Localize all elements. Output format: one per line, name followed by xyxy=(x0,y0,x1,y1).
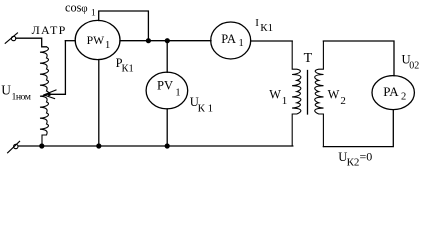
svg-text:2: 2 xyxy=(401,91,406,102)
svg-text:ЛАТР: ЛАТР xyxy=(32,23,67,37)
svg-text:PA: PA xyxy=(383,84,399,99)
svg-text:К2: К2 xyxy=(347,157,360,169)
svg-text:1ном: 1ном xyxy=(12,91,31,102)
svg-text:=0: =0 xyxy=(360,149,373,163)
svg-text:02: 02 xyxy=(409,61,419,72)
svg-text:1: 1 xyxy=(282,95,288,107)
svg-text:T: T xyxy=(304,51,313,66)
svg-text:I: I xyxy=(255,17,259,29)
svg-text:1: 1 xyxy=(239,38,244,49)
svg-text:К1: К1 xyxy=(260,22,273,34)
svg-text:cos: cos xyxy=(65,0,82,14)
svg-text:W: W xyxy=(328,88,340,102)
svg-text:U: U xyxy=(1,83,11,98)
svg-text:К1: К1 xyxy=(122,64,134,75)
svg-text:PW: PW xyxy=(87,34,106,47)
svg-text:W: W xyxy=(269,88,281,102)
svg-text:PA: PA xyxy=(221,32,236,46)
svg-text:PV: PV xyxy=(157,79,173,93)
svg-text:1: 1 xyxy=(175,88,180,99)
svg-text:2: 2 xyxy=(340,95,346,107)
svg-text:1: 1 xyxy=(91,8,96,18)
svg-text:φ: φ xyxy=(81,3,87,15)
svg-text:К 1: К 1 xyxy=(198,102,214,114)
svg-text:1: 1 xyxy=(105,40,110,51)
